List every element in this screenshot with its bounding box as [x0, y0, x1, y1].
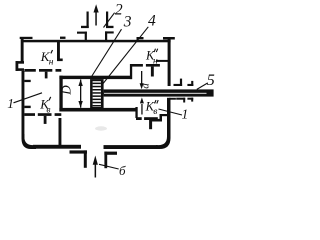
left wall inner lip upper — [24, 80, 30, 82]
K'n niche divider wall — [57, 41, 60, 60]
svg-text:1: 1 — [182, 106, 189, 121]
top port neck right wall — [105, 31, 107, 40]
leader line 4 — [102, 27, 149, 86]
rod gland bracket C lip — [176, 98, 185, 100]
housing top wall — [21, 40, 171, 43]
bottom port left flange lip — [70, 150, 88, 153]
rod gland bracket D vertical — [191, 98, 193, 102]
rod gland bracket B foot — [187, 84, 193, 86]
K''n valve stem — [151, 67, 154, 77]
svg-text:2: 2 — [115, 1, 123, 18]
K'n valve seat right — [56, 69, 62, 72]
K''v niche shelf lip — [160, 114, 168, 116]
K'n valve seat left — [24, 69, 35, 72]
left wall outward jog outer wall — [16, 61, 19, 71]
housing bottom wall left segment — [33, 145, 81, 149]
housing top-left corner lip — [20, 37, 33, 39]
K'v valve stem — [44, 116, 47, 124]
housing top cover tab 1 — [60, 37, 66, 39]
dimension D top arrowhead — [78, 79, 82, 86]
cylinder top wall — [59, 76, 132, 79]
housing top-right corner lip — [163, 37, 175, 40]
svg-text:в: в — [46, 105, 50, 115]
top port neck left wall — [85, 32, 87, 40]
K''v valve plate — [144, 117, 158, 120]
dimension D bottom arrowhead — [78, 101, 82, 108]
svg-text:4: 4 — [148, 12, 156, 29]
svg-text:н: н — [153, 56, 158, 66]
top port pipe left flange foot — [81, 26, 89, 28]
rod gland bracket A foot — [174, 84, 183, 86]
housing left wall upper — [21, 39, 24, 62]
svg-text:н: н — [49, 58, 54, 68]
dimension d upper arrow — [141, 71, 142, 84]
K''n valve seat left — [132, 64, 143, 67]
leader line 5 — [197, 83, 208, 89]
bottom port right flange lip — [104, 152, 117, 155]
housing right wall upper — [168, 39, 171, 86]
top port pipe right wall — [106, 12, 108, 29]
dimension D line — [80, 80, 81, 108]
svg-text:3: 3 — [123, 14, 132, 31]
svg-text:D: D — [58, 85, 73, 96]
svg-text:d: d — [139, 83, 151, 89]
housing bottom-right rounded corner — [156, 133, 171, 149]
K'v valve plate — [38, 113, 52, 116]
bottom supply arrow — [95, 164, 97, 178]
top port neck right lip — [105, 31, 114, 33]
faint smudge — [95, 126, 107, 130]
K'n valve stem — [45, 72, 48, 79]
rod gland bracket C vertical — [183, 98, 185, 103]
top exhaust arrow — [95, 10, 97, 26]
left wall outward jog bottom lip — [16, 68, 25, 71]
channel wall up to K''n — [130, 64, 132, 79]
leader line b — [99, 164, 119, 169]
left wall inner lip lower — [24, 106, 30, 108]
top port pipe right flange foot — [106, 26, 114, 28]
piston outline — [90, 79, 104, 109]
top port neck left lip — [77, 32, 87, 34]
housing bottom-left rounded corner — [22, 134, 37, 149]
rod gland bracket B vertical — [191, 81, 193, 86]
K'v valve seat left — [24, 113, 35, 116]
bottom port pipe right wall — [104, 152, 107, 169]
rod gland lower wall lip — [169, 98, 176, 100]
K''v valve stem — [149, 120, 152, 129]
channel wall down to K''v — [135, 107, 137, 118]
housing right wall lower — [167, 98, 171, 135]
svg-text:1: 1 — [7, 96, 14, 111]
K'v valve seat right — [55, 113, 62, 116]
K'v niche divider wall — [59, 118, 62, 146]
rod gland bracket A vertical — [180, 79, 182, 86]
K'n niche divider lip — [57, 59, 63, 62]
K''v valve seat left — [136, 117, 142, 120]
K''n niche shelf lip — [156, 60, 169, 62]
K'n valve plate — [39, 69, 52, 72]
cylinder left wall — [59, 76, 62, 112]
svg-text:в: в — [153, 107, 157, 117]
K''v niche shoulder vertical — [160, 114, 163, 122]
housing left wall middle — [22, 71, 25, 138]
piston hatch interior — [93, 81, 101, 107]
K''v niche inner L horizontal — [152, 119, 161, 122]
leader line 1 right — [159, 109, 183, 115]
rod center light line — [104, 93, 207, 94]
K''n valve plate — [146, 64, 160, 67]
cylinder bottom wall — [59, 108, 137, 112]
housing top cover tab 2 — [137, 37, 144, 39]
left wall outward jog top lip — [16, 61, 25, 64]
top port pipe left wall — [87, 12, 89, 29]
leader line 2 — [104, 13, 115, 28]
rod gland bracket D lip — [187, 98, 193, 100]
leader line 3 — [90, 29, 122, 79]
housing bottom wall right segment — [104, 145, 158, 149]
bottom port pipe left wall — [84, 150, 87, 167]
leader line 1 left — [14, 93, 43, 103]
dimension d lower arrow — [141, 104, 142, 115]
svg-text:б: б — [119, 163, 126, 178]
svg-text:5: 5 — [207, 72, 215, 89]
piston rod — [104, 89, 214, 96]
